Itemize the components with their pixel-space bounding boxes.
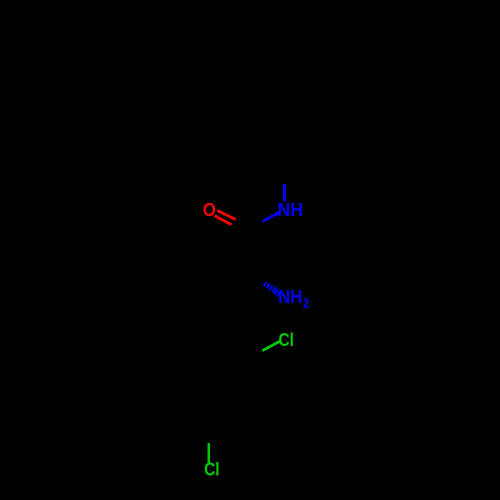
- svg-text:Cl: Cl: [204, 459, 220, 479]
- svg-text:O: O: [203, 200, 216, 220]
- svg-text:NH: NH: [277, 200, 303, 220]
- stereo hash wedge dash 2: [267, 284, 270, 288]
- bond C-Cl1 (green half): [262, 341, 280, 351]
- bond C-Cl2 (green half): [207, 443, 210, 462]
- bond N-CH3 (blue half): [283, 184, 286, 202]
- C=O double bond (red half) upper line: [218, 211, 236, 220]
- svg-text:NH: NH: [278, 287, 302, 307]
- svg-text:Cl: Cl: [279, 330, 294, 350]
- svg-text:2: 2: [303, 296, 309, 311]
- bond C(=O)-N (blue half): [263, 212, 281, 222]
- stereo hash wedge dash 6: [278, 291, 281, 297]
- stereo hash wedge dash 4: [273, 287, 276, 293]
- C=O double bond (red half) lower line: [215, 216, 232, 225]
- stereo hash wedge dash 3: [270, 285, 273, 290]
- stereo hash wedge dash 5: [275, 289, 278, 295]
- stereo hash wedge C-NH2 (blue half) dash 1: [263, 283, 266, 287]
